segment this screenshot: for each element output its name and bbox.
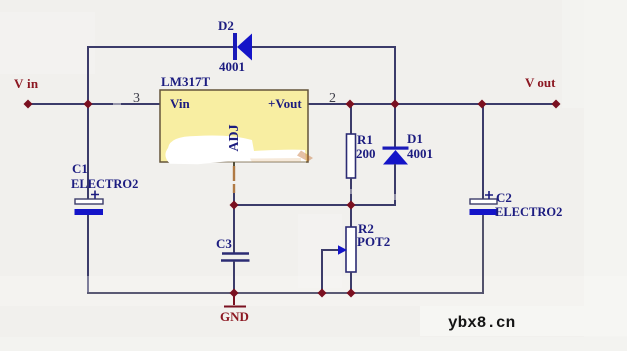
capacitor C1 branch wire lower xyxy=(87,215,89,294)
svg-text:2: 2 xyxy=(329,91,336,106)
terminal V out xyxy=(552,100,561,109)
wire bottom rail xyxy=(87,292,483,294)
svg-text:V out: V out xyxy=(525,75,556,90)
capacitor C3 branch wire upper xyxy=(233,205,235,253)
wire main right regulator to Vout xyxy=(308,103,556,105)
potentiometer R2 body xyxy=(346,227,356,272)
node junction ADJ rail / R1-R2 xyxy=(347,201,356,210)
white blob overlay inside box xyxy=(165,136,313,165)
potentiometer R2 wiper arrow xyxy=(322,245,347,255)
svg-text:LM317T: LM317T xyxy=(161,74,210,89)
node junction bottom rail / C3-GND xyxy=(230,289,239,298)
node junction bottom rail / wiper xyxy=(318,289,327,298)
svg-text:POT2: POT2 xyxy=(357,234,390,249)
capacitor C1 branch wire upper xyxy=(87,104,89,199)
diode D1 wire upper xyxy=(394,104,396,148)
capacitor C1 plates xyxy=(75,199,104,215)
svg-text:D2: D2 xyxy=(218,18,234,33)
wire ADJ vertical xyxy=(233,162,235,205)
svg-text:3: 3 xyxy=(133,91,140,106)
svg-text:D1: D1 xyxy=(407,131,423,146)
capacitor C2 branch wire lower xyxy=(482,215,484,294)
capacitor C3 plates xyxy=(221,254,250,261)
svg-text:ELECTRO2: ELECTRO2 xyxy=(495,205,562,219)
svg-text:ADJ: ADJ xyxy=(227,124,242,151)
potentiometer R2 wire lower xyxy=(350,272,352,293)
svg-text:4001: 4001 xyxy=(219,59,245,74)
ground symbol GND xyxy=(224,295,246,307)
resistor R1 wire upper xyxy=(350,104,352,134)
potentiometer R2 wire upper xyxy=(350,205,352,227)
svg-text:4001: 4001 xyxy=(407,146,433,161)
wire main left Vin to regulator xyxy=(28,102,160,105)
light band near bottom rail xyxy=(0,276,627,306)
resistor R1 wire lower xyxy=(350,178,353,205)
svg-text:C2: C2 xyxy=(496,190,512,205)
terminal V in xyxy=(24,100,33,109)
node junction at Vin rail / C1 xyxy=(84,100,93,109)
node junction main wire / C2 xyxy=(478,100,487,109)
svg-text:R1: R1 xyxy=(357,132,373,147)
C2 plus sign xyxy=(485,191,493,199)
capacitor C2 plates xyxy=(470,199,498,215)
svg-text:C3: C3 xyxy=(216,236,232,251)
svg-text:ybx8.cn: ybx8.cn xyxy=(448,314,515,332)
diode D1 xyxy=(383,147,409,165)
svg-text:ELECTRO2: ELECTRO2 xyxy=(71,177,138,191)
node junction ADJ rail / C3 top xyxy=(230,201,239,210)
svg-text:200: 200 xyxy=(356,146,376,161)
potentiometer R2 wiper wire down xyxy=(321,249,323,293)
svg-text:Vin: Vin xyxy=(170,96,191,111)
wire top horizontal to D2 xyxy=(87,46,234,48)
wire ADJ horizontal rail xyxy=(234,204,396,206)
capacitor C2 branch wire upper xyxy=(482,104,484,199)
wire top horizontal from D2 xyxy=(252,46,396,48)
regulator U1 LM317T body xyxy=(160,90,308,162)
capacitor C3 branch wire lower xyxy=(233,261,235,293)
svg-text:V in: V in xyxy=(14,76,39,91)
svg-text:+Vout: +Vout xyxy=(268,96,302,111)
wire top riser left xyxy=(87,47,89,105)
svg-text:C1: C1 xyxy=(72,161,88,176)
wire top riser right xyxy=(394,46,396,104)
node junction bottom rail / R2 xyxy=(347,289,356,298)
diode D1 wire lower xyxy=(394,164,397,205)
node junction main wire / D1 top xyxy=(391,100,400,109)
svg-text:GND: GND xyxy=(220,309,249,324)
resistor R1 body xyxy=(347,134,356,178)
C1 plus sign xyxy=(91,191,99,199)
node junction main wire / R1 xyxy=(346,100,355,109)
diode D2 xyxy=(233,33,252,61)
